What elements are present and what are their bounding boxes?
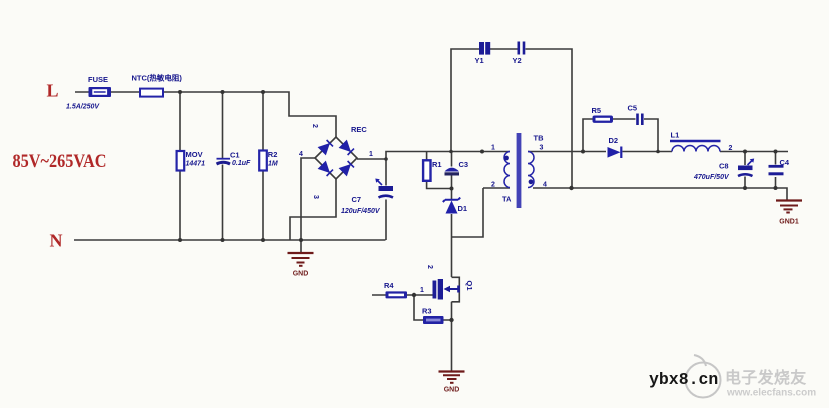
- svg-text:FUSE: FUSE: [88, 75, 108, 84]
- svg-text:2: 2: [311, 124, 318, 128]
- svg-text:85V~265VAC: 85V~265VAC: [13, 151, 107, 172]
- svg-text:1: 1: [369, 151, 373, 158]
- svg-text:N: N: [50, 231, 63, 251]
- svg-text:MOV: MOV: [186, 150, 203, 159]
- svg-text:电子发烧友: 电子发烧友: [725, 368, 807, 387]
- svg-text:C1: C1: [230, 151, 240, 160]
- svg-text:4: 4: [543, 182, 547, 189]
- svg-text:14471: 14471: [186, 161, 206, 168]
- svg-text:0.1uF: 0.1uF: [232, 160, 251, 167]
- svg-text:R5: R5: [592, 106, 602, 115]
- svg-text:3: 3: [540, 145, 544, 152]
- svg-text:C4: C4: [780, 158, 790, 167]
- svg-text:L: L: [47, 81, 59, 101]
- svg-text:D2: D2: [609, 136, 619, 145]
- svg-text:R4: R4: [384, 281, 394, 290]
- svg-text:GND: GND: [293, 271, 309, 278]
- svg-text:GND: GND: [444, 387, 460, 394]
- svg-text:ybx8.cn: ybx8.cn: [649, 370, 718, 389]
- svg-text:D1: D1: [458, 204, 468, 213]
- svg-text:2: 2: [426, 265, 433, 269]
- svg-text:TA: TA: [502, 195, 512, 204]
- svg-text:L1: L1: [671, 131, 680, 140]
- svg-text:C8: C8: [719, 162, 729, 171]
- svg-text:Y2: Y2: [513, 56, 522, 65]
- svg-text:1: 1: [491, 145, 495, 152]
- svg-text:Y1: Y1: [475, 56, 484, 65]
- svg-text:470uF/50V: 470uF/50V: [693, 174, 730, 181]
- svg-text:4: 4: [299, 151, 303, 158]
- svg-text:TB: TB: [534, 134, 545, 143]
- svg-text:R3: R3: [422, 307, 432, 316]
- svg-text:REC: REC: [351, 125, 367, 134]
- svg-text:2: 2: [729, 145, 733, 152]
- svg-text:3: 3: [312, 195, 319, 199]
- svg-text:www.elecfans.com: www.elecfans.com: [726, 388, 816, 399]
- svg-text:120uF/450V: 120uF/450V: [341, 208, 381, 215]
- svg-text:1M: 1M: [268, 161, 278, 168]
- svg-text:NTC(热敏电阻): NTC(热敏电阻): [132, 73, 183, 83]
- svg-text:1.5A/250V: 1.5A/250V: [66, 104, 100, 111]
- svg-text:Q1: Q1: [465, 281, 474, 291]
- svg-text:GND1: GND1: [779, 219, 799, 226]
- svg-text:R1: R1: [432, 160, 442, 169]
- svg-text:C5: C5: [628, 104, 638, 113]
- svg-text:C3: C3: [459, 160, 469, 169]
- svg-text:C7: C7: [352, 195, 362, 204]
- svg-text:R2: R2: [268, 150, 278, 159]
- svg-text:2: 2: [491, 182, 495, 189]
- svg-text:1: 1: [420, 287, 424, 294]
